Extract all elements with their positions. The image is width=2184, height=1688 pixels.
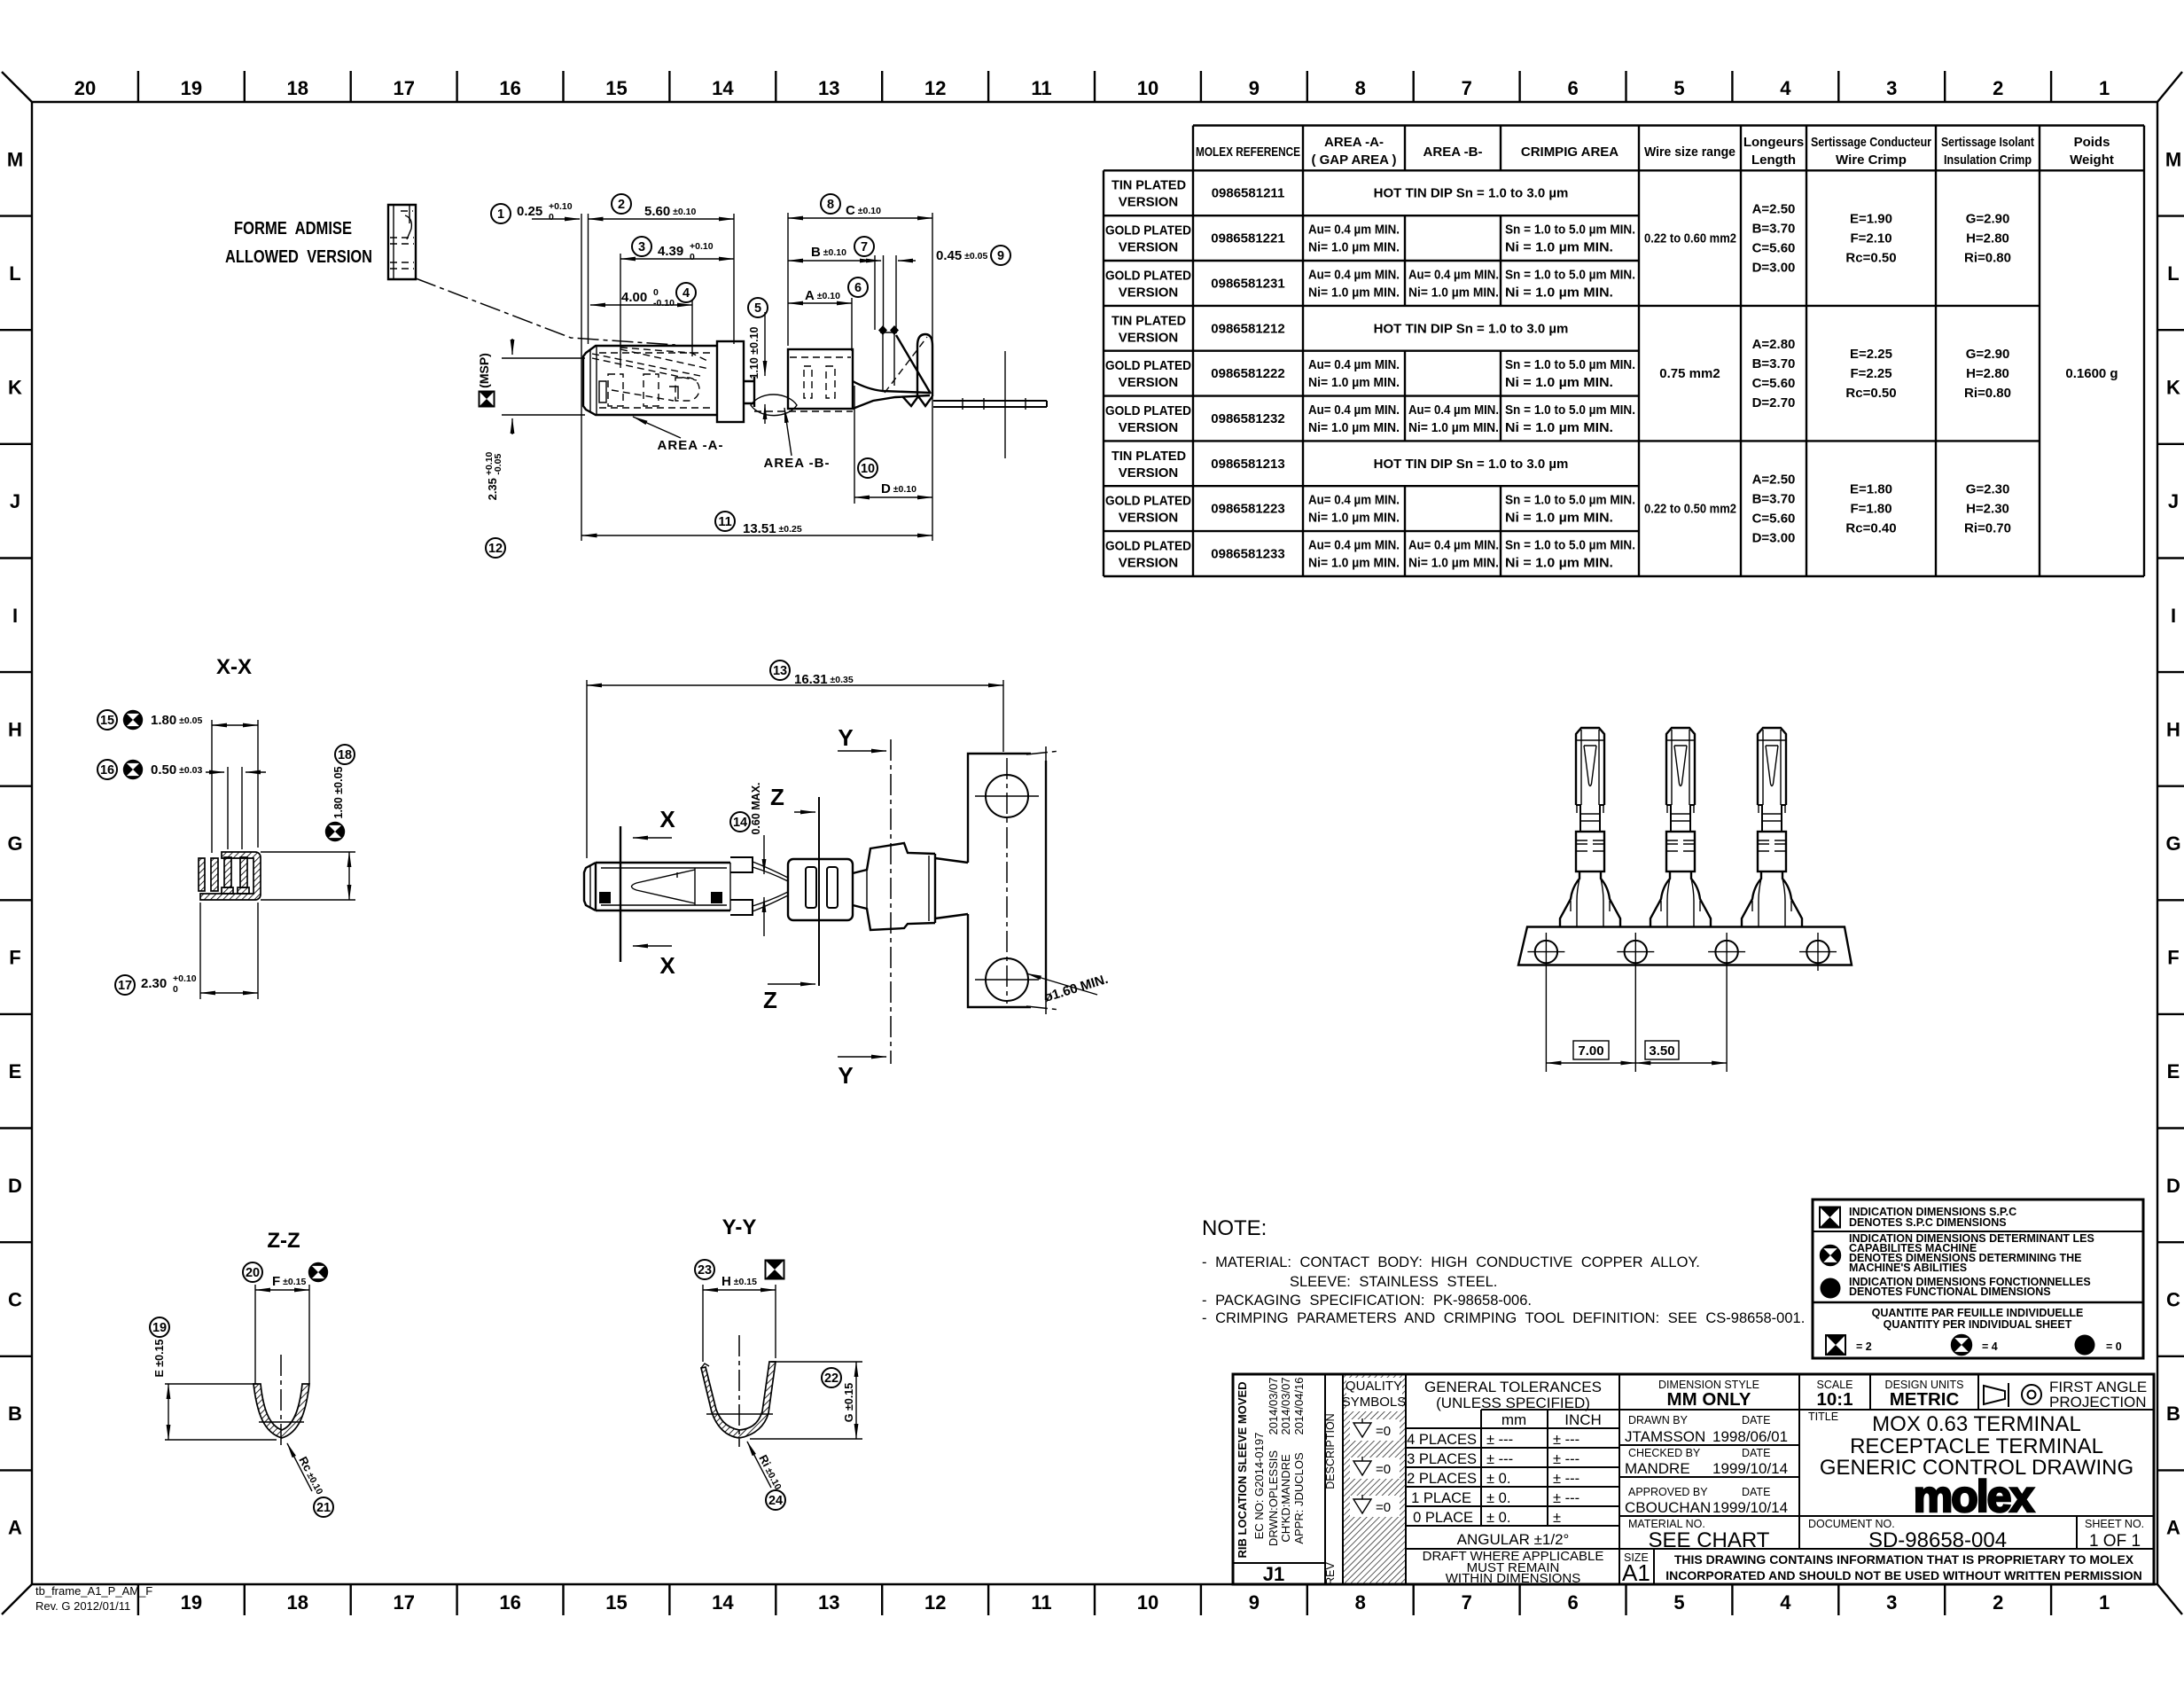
svg-text:14: 14	[712, 1591, 734, 1614]
svg-text:1999/10/14: 1999/10/14	[1712, 1460, 1788, 1477]
svg-text:APPR: JDUCLOS: APPR: JDUCLOS	[1292, 1452, 1306, 1544]
svg-text:21: 21	[316, 1501, 331, 1515]
svg-text:VERSION: VERSION	[1119, 375, 1179, 390]
svg-text:QUANTITY PER INDIVIDUAL SHEET: QUANTITY PER INDIVIDUAL SHEET	[1884, 1318, 2072, 1331]
section X marks	[620, 806, 675, 979]
svg-text:15: 15	[100, 714, 114, 728]
plan view: neck to plate	[935, 858, 968, 918]
svg-text:9: 9	[997, 249, 1004, 263]
svg-text:0.60 MAX.: 0.60 MAX.	[750, 782, 762, 834]
svg-text:TIN PLATED: TIN PLATED	[1111, 313, 1186, 328]
svg-text:0: 0	[173, 984, 178, 995]
svg-text:2: 2	[1993, 1591, 2003, 1614]
svg-text:DATE: DATE	[1742, 1486, 1770, 1498]
svg-text:= 4: = 4	[1982, 1340, 1998, 1353]
side view: transition + wire	[744, 377, 853, 416]
svg-text:VERSION: VERSION	[1119, 511, 1179, 526]
svg-text:I: I	[12, 605, 18, 627]
svg-text:Sn = 1.0 to 5.0 µm MIN.: Sn = 1.0 to 5.0 µm MIN.	[1505, 357, 1635, 372]
dim 12: 2.35 (MSP)	[484, 339, 585, 558]
svg-text:GOLD PLATED: GOLD PLATED	[1105, 268, 1191, 283]
svg-text:14: 14	[733, 816, 747, 830]
table headers	[1196, 135, 2114, 168]
svg-text:SD-98658-004: SD-98658-004	[1868, 1528, 2007, 1552]
svg-text:VERSION: VERSION	[1119, 240, 1179, 255]
svg-text:Sn = 1.0 to 5.0 µm MIN.: Sn = 1.0 to 5.0 µm MIN.	[1505, 402, 1635, 418]
svg-text:Y: Y	[838, 1062, 853, 1089]
Y-Y profile	[701, 1335, 776, 1447]
svg-text:E: E	[2167, 1060, 2180, 1082]
svg-text:Insulation Crimp: Insulation Crimp	[1944, 152, 2032, 168]
svg-text:F=2.25: F=2.25	[1850, 366, 1891, 381]
design units cell	[1885, 1379, 1964, 1410]
dim 8: C	[788, 194, 932, 541]
general tolerances	[1407, 1379, 1603, 1586]
svg-text:CHECKED BY: CHECKED BY	[1628, 1447, 1701, 1459]
svg-text:Z-Z: Z-Z	[267, 1229, 300, 1253]
dim 2: 5.60	[589, 194, 735, 344]
svg-text:GOLD PLATED: GOLD PLATED	[1105, 539, 1191, 554]
svg-text:3: 3	[638, 240, 645, 254]
svg-text:Ri=0.80: Ri=0.80	[1964, 386, 2011, 401]
svg-text:Ni= 1.0 µm MIN.: Ni= 1.0 µm MIN.	[1308, 556, 1400, 571]
dim 1: 0.25	[491, 201, 589, 541]
svg-text:4.39: 4.39	[658, 244, 683, 259]
Z-Z dim 19: E	[150, 1317, 277, 1440]
svg-text:= 0: = 0	[2106, 1340, 2122, 1353]
svg-text:5: 5	[754, 301, 761, 316]
dim 11: 13.51	[582, 512, 933, 536]
pilot holes	[1527, 933, 1837, 971]
svg-text:4: 4	[1780, 77, 1791, 99]
svg-text:0.50 ±0.03: 0.50 ±0.03	[151, 762, 202, 778]
svg-text:Ni= 1.0 µm MIN.: Ni= 1.0 µm MIN.	[1308, 511, 1400, 526]
svg-text:Ri=0.70: Ri=0.70	[1964, 521, 2011, 536]
svg-text:DRWN:OPLESSIS: DRWN:OPLESSIS	[1267, 1450, 1280, 1546]
svg-text:10: 10	[1137, 1591, 1158, 1614]
svg-text:± ---: ± ---	[1553, 1490, 1579, 1506]
plan view: mounting plate	[968, 746, 1060, 1014]
plan view: wire crimp box	[788, 859, 853, 920]
svg-text:Au= 0.4 µm MIN.: Au= 0.4 µm MIN.	[1308, 267, 1400, 282]
svg-text:11: 11	[718, 515, 731, 529]
svg-text:C=5.60: C=5.60	[1752, 512, 1796, 527]
X-X profile	[199, 852, 261, 900]
svg-text:F ±0.15: F ±0.15	[272, 1274, 306, 1289]
svg-text:APPROVED BY: APPROVED BY	[1628, 1486, 1708, 1498]
svg-text:tb_frame_A1_P_AM_F: tb_frame_A1_P_AM_F	[35, 1584, 152, 1598]
svg-text:SHEET NO.: SHEET NO.	[2085, 1518, 2144, 1530]
svg-text:QUALITY: QUALITY	[1345, 1379, 1402, 1394]
svg-text:1.80 ±0.05: 1.80 ±0.05	[151, 713, 202, 728]
svg-text:Au= 0.4 µm MIN.: Au= 0.4 µm MIN.	[1308, 223, 1400, 238]
svg-text:K: K	[8, 377, 22, 399]
svg-text:DRAWN BY: DRAWN BY	[1628, 1414, 1689, 1426]
svg-text:J1: J1	[1263, 1563, 1284, 1585]
svg-text:GOLD PLATED: GOLD PLATED	[1105, 494, 1191, 509]
svg-text:Poids: Poids	[2074, 135, 2110, 150]
svg-text:QUANTITE PAR FEUILLE INDIVIDUE: QUANTITE PAR FEUILLE INDIVIDUELLE	[1872, 1307, 2084, 1319]
svg-text:0: 0	[549, 212, 554, 223]
dimension style cell	[1658, 1379, 1759, 1410]
svg-text:I: I	[2171, 605, 2176, 627]
svg-text:TITLE: TITLE	[1808, 1411, 1838, 1423]
svg-text:1.10 ±0.10: 1.10 ±0.10	[748, 326, 760, 379]
svg-text:G: G	[2165, 832, 2180, 855]
svg-text:( GAP AREA ): ( GAP AREA )	[1311, 152, 1396, 168]
svg-text:0986581212: 0986581212	[1211, 321, 1284, 336]
svg-text:Ni = 1.0 µm MIN.: Ni = 1.0 µm MIN.	[1505, 285, 1613, 300]
svg-text:Rev. G 2012/01/11: Rev. G 2012/01/11	[35, 1599, 130, 1613]
svg-text:G ±0.15: G ±0.15	[843, 1383, 855, 1422]
X-X dim 17: 2.30	[115, 903, 258, 999]
svg-text:17: 17	[118, 979, 132, 993]
svg-text:Ni= 1.0 µm MIN.: Ni= 1.0 µm MIN.	[1308, 240, 1400, 255]
svg-text:A=2.50: A=2.50	[1752, 202, 1796, 217]
svg-text:19: 19	[181, 77, 202, 99]
svg-text:1: 1	[2099, 1591, 2110, 1614]
Z-Z dim 20: F	[243, 1262, 328, 1384]
svg-text:L: L	[9, 262, 20, 285]
svg-text:7: 7	[1462, 77, 1472, 99]
svg-text:F=2.10: F=2.10	[1850, 231, 1891, 246]
svg-text:6: 6	[1567, 1591, 1578, 1614]
svg-text:1 OF 1: 1 OF 1	[2089, 1532, 2141, 1551]
terminal at x=1794	[1560, 728, 1620, 926]
svg-text:± 0.: ± 0.	[1486, 1471, 1510, 1487]
svg-text:D=3.00: D=3.00	[1752, 261, 1796, 276]
svg-text:=0: =0	[1376, 1462, 1391, 1477]
svg-text:J: J	[2168, 490, 2179, 512]
svg-text:Au= 0.4 µm MIN.: Au= 0.4 µm MIN.	[1408, 267, 1499, 282]
svg-text:23: 23	[698, 1263, 712, 1278]
title block grid	[1233, 1374, 2154, 1584]
sheet no cell	[2085, 1518, 2144, 1551]
svg-text:A1: A1	[1622, 1559, 1650, 1586]
svg-text:A=2.50: A=2.50	[1752, 473, 1796, 488]
svg-text:Sn = 1.0 to 5.0 µm MIN.: Sn = 1.0 to 5.0 µm MIN.	[1505, 267, 1635, 282]
svg-text:G=2.30: G=2.30	[1966, 482, 2010, 497]
svg-text:24: 24	[768, 1494, 783, 1508]
svg-text:8: 8	[1355, 77, 1366, 99]
svg-text:0.75 mm2: 0.75 mm2	[1659, 366, 1720, 381]
svg-text:2.30: 2.30	[141, 976, 167, 991]
svg-text:16: 16	[499, 77, 520, 99]
MSP spc symbol	[477, 353, 495, 406]
svg-text:1998/06/01: 1998/06/01	[1712, 1428, 1788, 1445]
svg-text:Au= 0.4 µm MIN.: Au= 0.4 µm MIN.	[1308, 402, 1400, 418]
svg-text:10: 10	[861, 462, 875, 476]
svg-text:0986581223: 0986581223	[1211, 502, 1284, 517]
svg-text:Au= 0.4 µm MIN.: Au= 0.4 µm MIN.	[1408, 538, 1499, 553]
svg-text:17: 17	[393, 1591, 414, 1614]
svg-text:20: 20	[74, 77, 96, 99]
table body text	[1105, 178, 2118, 571]
dim 9: 0.45	[863, 246, 1010, 330]
svg-text:Ni= 1.0 µm MIN.: Ni= 1.0 µm MIN.	[1308, 420, 1400, 435]
svg-text:Ni = 1.0 µm MIN.: Ni = 1.0 µm MIN.	[1505, 511, 1613, 526]
svg-text:J: J	[10, 490, 20, 512]
svg-text:INCORPORATED AND SHOULD NOT BE: INCORPORATED AND SHOULD NOT BE USED WITH…	[1665, 1568, 2141, 1582]
drawn by rows	[1625, 1414, 1788, 1516]
svg-text:Wire size range: Wire size range	[1644, 145, 1735, 160]
legend machine row	[1821, 1232, 2094, 1274]
svg-text:Y-Y: Y-Y	[722, 1215, 757, 1239]
svg-text:METRIC: METRIC	[1890, 1389, 1960, 1410]
dim 13: 16.31	[587, 660, 1003, 858]
svg-text:molex: molex	[1914, 1472, 2035, 1521]
svg-text:± ---: ± ---	[1553, 1451, 1579, 1467]
svg-text:AREA -A-: AREA -A-	[658, 438, 724, 453]
X-X dim 18: 1.80 vertical	[261, 745, 355, 900]
svg-text:SEE CHART: SEE CHART	[1649, 1528, 1770, 1552]
dim 10: D	[854, 386, 932, 504]
svg-text:JTAMSSON: JTAMSSON	[1625, 1428, 1705, 1445]
svg-text:Y: Y	[838, 724, 853, 751]
svg-text:TIN PLATED: TIN PLATED	[1111, 178, 1186, 193]
svg-text:14: 14	[712, 77, 734, 99]
svg-text:17: 17	[393, 77, 414, 99]
svg-text:8: 8	[827, 198, 834, 212]
dim 6: A	[788, 277, 868, 351]
svg-text:0: 0	[690, 252, 695, 262]
svg-text:HOT TIN DIP Sn = 1.0 to 3.0 µm: HOT TIN DIP Sn = 1.0 to 3.0 µm	[1374, 186, 1569, 201]
svg-text:1: 1	[497, 207, 504, 222]
svg-text:Sertissage Conducteur: Sertissage Conducteur	[1811, 135, 1931, 150]
side view: insulation crimp and carrier tail	[853, 325, 1047, 458]
legend spc row	[1820, 1206, 2016, 1229]
svg-text:7.00: 7.00	[1578, 1043, 1603, 1059]
plan view: insulation bell	[853, 843, 935, 930]
svg-text:X: X	[659, 806, 675, 832]
Y-Y dim 22: G	[750, 1362, 862, 1439]
svg-text:9: 9	[1249, 77, 1260, 99]
svg-text:= 2: = 2	[1856, 1340, 1872, 1353]
svg-text:VERSION: VERSION	[1119, 556, 1179, 571]
svg-text:H=2.80: H=2.80	[1966, 231, 2009, 246]
svg-text:C ±0.10: C ±0.10	[846, 203, 881, 218]
svg-text:B=3.70: B=3.70	[1752, 222, 1796, 237]
svg-text:DATE: DATE	[1742, 1414, 1770, 1426]
svg-text:1999/10/14: 1999/10/14	[1712, 1499, 1788, 1516]
svg-text:13: 13	[773, 664, 787, 678]
svg-text:HOT TIN DIP Sn = 1.0 to 3.0 µm: HOT TIN DIP Sn = 1.0 to 3.0 µm	[1374, 321, 1569, 336]
svg-text:Au= 0.4 µm MIN.: Au= 0.4 µm MIN.	[1308, 538, 1400, 553]
svg-text:Rc=0.40: Rc=0.40	[1845, 521, 1896, 536]
svg-text:Sn = 1.0 to 5.0 µm MIN.: Sn = 1.0 to 5.0 µm MIN.	[1505, 493, 1635, 508]
svg-text:GENERAL TOLERANCES: GENERAL TOLERANCES	[1424, 1379, 1602, 1395]
svg-text:Sn = 1.0 to 5.0 µm MIN.: Sn = 1.0 to 5.0 µm MIN.	[1505, 538, 1635, 553]
svg-text:A ±0.10: A ±0.10	[805, 288, 840, 303]
svg-text:6: 6	[1567, 77, 1578, 99]
svg-text:DENOTES FUNCTIONAL DIMENSIONS: DENOTES FUNCTIONAL DIMENSIONS	[1849, 1286, 2051, 1298]
svg-text:DESCRIPTION: DESCRIPTION	[1324, 1413, 1337, 1489]
svg-text:MM ONLY: MM ONLY	[1667, 1389, 1751, 1410]
svg-text:VERSION: VERSION	[1119, 420, 1179, 435]
svg-text:0 PLACE: 0 PLACE	[1413, 1510, 1473, 1526]
svg-text:2014/03/07: 2014/03/07	[1279, 1377, 1292, 1434]
svg-text:1 PLACE: 1 PLACE	[1411, 1490, 1471, 1506]
svg-text:5.60 ±0.10: 5.60 ±0.10	[644, 204, 696, 219]
svg-text:H: H	[2166, 718, 2180, 740]
svg-text:AREA -A-: AREA -A-	[1324, 135, 1384, 150]
svg-text:C=5.60: C=5.60	[1752, 241, 1796, 256]
svg-text:13.51 ±0.25: 13.51 ±0.25	[743, 521, 802, 536]
svg-text:A: A	[2166, 1517, 2180, 1539]
svg-text:22: 22	[824, 1371, 838, 1386]
terminal at x=1896	[1650, 728, 1711, 926]
svg-text:+0.10: +0.10	[173, 973, 197, 984]
svg-text:B: B	[2166, 1403, 2180, 1425]
svg-text:D=3.00: D=3.00	[1752, 531, 1796, 546]
svg-text:Longeurs: Longeurs	[1743, 135, 1804, 150]
svg-text:ANGULAR ±1/2°: ANGULAR ±1/2°	[1457, 1531, 1570, 1548]
svg-text:A: A	[8, 1517, 22, 1539]
svg-text:H=2.80: H=2.80	[1966, 366, 2009, 381]
svg-text:E=1.90: E=1.90	[1850, 212, 1892, 227]
area B label	[764, 408, 831, 471]
svg-text:9: 9	[1249, 1591, 1260, 1614]
svg-text:18: 18	[287, 77, 308, 99]
svg-text:VERSION: VERSION	[1119, 285, 1179, 300]
phantom line to main view	[416, 278, 675, 345]
svg-text:2014/03/07: 2014/03/07	[1267, 1377, 1280, 1434]
svg-text:Ni= 1.0 µm MIN.: Ni= 1.0 µm MIN.	[1408, 420, 1499, 435]
svg-text:19: 19	[152, 1321, 167, 1335]
svg-text:E: E	[9, 1060, 22, 1082]
svg-text:12: 12	[924, 77, 946, 99]
svg-text:RIB LOCATION SLEEVE MOVED: RIB LOCATION SLEEVE MOVED	[1236, 1381, 1249, 1558]
svg-text:Au= 0.4 µm MIN.: Au= 0.4 µm MIN.	[1308, 493, 1400, 508]
dim 3: 4.39	[620, 237, 734, 368]
svg-text:- CRIMPING PARAMETERS AND CRIM: - CRIMPING PARAMETERS AND CRIMPING TOOL …	[1202, 1310, 1805, 1326]
quality symbols column	[1342, 1375, 1407, 1583]
svg-text:7: 7	[1462, 1591, 1472, 1614]
svg-text:0986581233: 0986581233	[1211, 547, 1284, 562]
svg-text:VERSION: VERSION	[1119, 195, 1179, 210]
svg-text:2 PLACES: 2 PLACES	[1407, 1471, 1477, 1487]
svg-text:19: 19	[181, 1591, 202, 1614]
svg-text:DATE: DATE	[1742, 1447, 1770, 1459]
svg-text:±: ±	[1553, 1510, 1561, 1526]
carrier strip	[1518, 927, 1852, 965]
svg-text:X: X	[659, 952, 675, 979]
svg-text:Au= 0.4 µm MIN.: Au= 0.4 µm MIN.	[1308, 357, 1400, 372]
plan view: terminal body	[584, 863, 730, 910]
svg-text:D: D	[2166, 1175, 2180, 1197]
allowed version part outline	[388, 205, 416, 279]
svg-text:mm: mm	[1501, 1411, 1526, 1428]
side view: receptacle body	[583, 341, 744, 422]
svg-text:VERSION: VERSION	[1119, 465, 1179, 481]
svg-text:Ni = 1.0 µm MIN.: Ni = 1.0 µm MIN.	[1505, 420, 1613, 435]
svg-text:18: 18	[287, 1591, 308, 1614]
svg-text:EC NO: G2014-0197: EC NO: G2014-0197	[1252, 1433, 1266, 1540]
svg-text:B: B	[8, 1403, 22, 1425]
side view: wire crimp	[788, 349, 853, 409]
svg-text:3: 3	[1886, 77, 1897, 99]
svg-text:H: H	[8, 718, 22, 740]
svg-text:B=3.70: B=3.70	[1752, 492, 1796, 507]
svg-text:1.80 ±0.05: 1.80 ±0.05	[332, 766, 345, 818]
svg-text:E=1.80: E=1.80	[1850, 482, 1892, 497]
legend functional row	[1821, 1276, 2091, 1299]
svg-text:7: 7	[861, 240, 868, 254]
svg-text:SLEEVE: STAINLESS STEEL.: SLEEVE: STAINLESS STEEL.	[1290, 1274, 1497, 1290]
svg-text:2014/04/16: 2014/04/16	[1292, 1377, 1306, 1434]
svg-text:TIN PLATED: TIN PLATED	[1111, 449, 1186, 464]
allowed version label	[225, 218, 372, 267]
legend quantity row	[1826, 1307, 2122, 1356]
dia 1.60 min label	[1026, 972, 1110, 1005]
svg-text:AREA -B-: AREA -B-	[764, 456, 831, 471]
svg-text:X-X: X-X	[216, 655, 252, 679]
svg-text:± ---: ± ---	[1553, 1432, 1579, 1448]
svg-text:15: 15	[605, 1591, 627, 1614]
svg-text:THIS DRAWING CONTAINS INFORMAT: THIS DRAWING CONTAINS INFORMATION THAT I…	[1674, 1552, 2134, 1567]
svg-text:Weight: Weight	[2070, 152, 2114, 168]
X-X dim 16: 0.50	[97, 760, 266, 849]
svg-text:- PACKAGING SPECIFICATION: PK-: - PACKAGING SPECIFICATION: PK-98658-006.	[1202, 1293, 1532, 1309]
svg-text:C=5.60: C=5.60	[1752, 376, 1796, 391]
svg-text:INCH: INCH	[1564, 1411, 1602, 1428]
svg-text:± ---: ± ---	[1553, 1471, 1579, 1487]
svg-text:Ri=0.80: Ri=0.80	[1964, 251, 2011, 266]
svg-text:0986581211: 0986581211	[1212, 186, 1285, 201]
svg-text:B ±0.10: B ±0.10	[811, 245, 846, 260]
svg-text:C: C	[8, 1289, 22, 1311]
svg-text:HOT TIN DIP Sn = 1.0 to 3.0 µm: HOT TIN DIP Sn = 1.0 to 3.0 µm	[1374, 457, 1569, 472]
svg-text:11: 11	[1031, 1591, 1051, 1614]
svg-text:4: 4	[1780, 1591, 1791, 1614]
svg-text:20: 20	[246, 1266, 260, 1280]
svg-text:FORME ADMISE: FORME ADMISE	[234, 218, 352, 238]
svg-text:± 0.: ± 0.	[1486, 1490, 1510, 1506]
svg-text:15: 15	[605, 77, 627, 99]
svg-text:Ni= 1.0 µm MIN.: Ni= 1.0 µm MIN.	[1308, 375, 1400, 390]
svg-text:3: 3	[1886, 1591, 1897, 1614]
svg-text:REV: REV	[1324, 1561, 1337, 1584]
svg-text:F: F	[9, 947, 20, 969]
svg-text:+0.10: +0.10	[549, 201, 573, 212]
svg-text:MACHINE'S ABILITIES: MACHINE'S ABILITIES	[1849, 1262, 1967, 1274]
svg-text:16: 16	[100, 763, 114, 778]
svg-text:SYMBOLS: SYMBOLS	[1342, 1395, 1407, 1410]
svg-text:8: 8	[1355, 1591, 1366, 1614]
svg-text:B=3.70: B=3.70	[1752, 356, 1796, 371]
Z-Z profile	[253, 1355, 309, 1447]
svg-text:12: 12	[488, 542, 503, 556]
svg-text:4 PLACES: 4 PLACES	[1407, 1432, 1477, 1448]
svg-text:4.00: 4.00	[621, 290, 647, 305]
svg-text:E ±0.15: E ±0.15	[153, 1339, 166, 1377]
frame revision note	[35, 1584, 152, 1613]
svg-text:0.25: 0.25	[517, 204, 542, 219]
svg-text:Au= 0.4 µm MIN.: Au= 0.4 µm MIN.	[1408, 402, 1499, 418]
Y-Y dim 23: H	[695, 1260, 784, 1362]
X-X dim 15: 1.80	[97, 710, 258, 853]
svg-text:- MATERIAL: CONTACT BODY: HIGH: - MATERIAL: CONTACT BODY: HIGH CONDUCTIV…	[1202, 1254, 1700, 1270]
svg-text:F: F	[2167, 947, 2179, 969]
svg-text:(UNLESS SPECIFIED): (UNLESS SPECIFIED)	[1436, 1395, 1590, 1411]
svg-text:2: 2	[618, 198, 625, 212]
svg-text:0: 0	[653, 287, 659, 298]
scale cell	[1816, 1379, 1852, 1410]
svg-text:G=2.90: G=2.90	[1966, 347, 2010, 362]
svg-text:0.22 to 0.60 mm2: 0.22 to 0.60 mm2	[1644, 231, 1736, 246]
material no cell	[1628, 1518, 1770, 1552]
svg-text:CRIMPIG AREA: CRIMPIG AREA	[1521, 145, 1618, 160]
